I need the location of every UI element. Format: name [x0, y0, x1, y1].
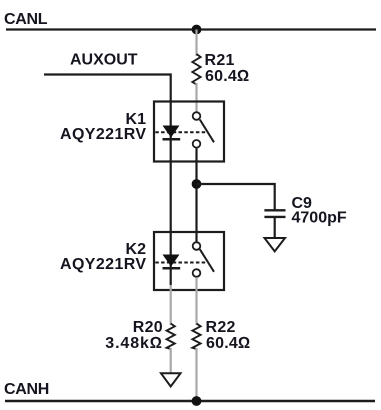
label K2 AQY221RV	[60, 241, 147, 273]
junction on CANL	[192, 25, 202, 35]
wire K2 switch to R22	[195, 277, 197, 325]
wire R20 to ground	[170, 348, 172, 373]
ground below C9	[265, 238, 286, 251]
label R20 3.48kΩ	[105, 319, 163, 352]
resistor R22	[192, 324, 200, 350]
svg-text:AUXOUT: AUXOUT	[70, 52, 138, 69]
optocoupler relay K1	[154, 102, 224, 162]
wire CANH bus	[5, 400, 375, 402]
wire R21 to K1 switch	[195, 83, 197, 113]
resistor R21	[192, 54, 200, 85]
svg-text:AQY221RV: AQY221RV	[60, 126, 147, 143]
svg-text:R22: R22	[206, 319, 236, 336]
label R21 60.4Ω	[205, 52, 250, 85]
label C9 4700pF	[292, 195, 347, 227]
wire CANL bus	[6, 28, 376, 30]
svg-text:60.4Ω: 60.4Ω	[205, 68, 249, 85]
junction on CANH	[192, 396, 202, 406]
junction K1 switch / C9 branch	[192, 179, 202, 189]
svg-text:3.48kΩ: 3.48kΩ	[105, 335, 163, 352]
wire C9 to ground	[274, 217, 276, 238]
capacitor C9	[264, 210, 285, 217]
ground below R20	[161, 373, 181, 386]
wire K1 switch to K2 switch	[195, 144, 197, 247]
svg-text:AQY221RV: AQY221RV	[60, 256, 147, 273]
svg-text:R20: R20	[133, 319, 163, 336]
wire K2 LED to R20	[170, 285, 172, 325]
wire R22 to CANH	[195, 348, 197, 401]
wire to C9	[197, 184, 275, 211]
svg-text:CANL: CANL	[4, 11, 48, 28]
resistor R20	[167, 324, 175, 350]
label R22 60.4Ω	[206, 319, 251, 352]
svg-text:R21: R21	[205, 52, 235, 69]
label K1 AQY221RV	[60, 111, 147, 143]
wire CANL to R21	[195, 30, 197, 57]
svg-text:60.4Ω: 60.4Ω	[206, 335, 250, 352]
wire AUXOUT to K1 LED	[44, 73, 171, 285]
optocoupler relay K2	[154, 232, 224, 290]
svg-text:CANH: CANH	[4, 381, 49, 398]
svg-text:4700pF: 4700pF	[292, 210, 347, 227]
